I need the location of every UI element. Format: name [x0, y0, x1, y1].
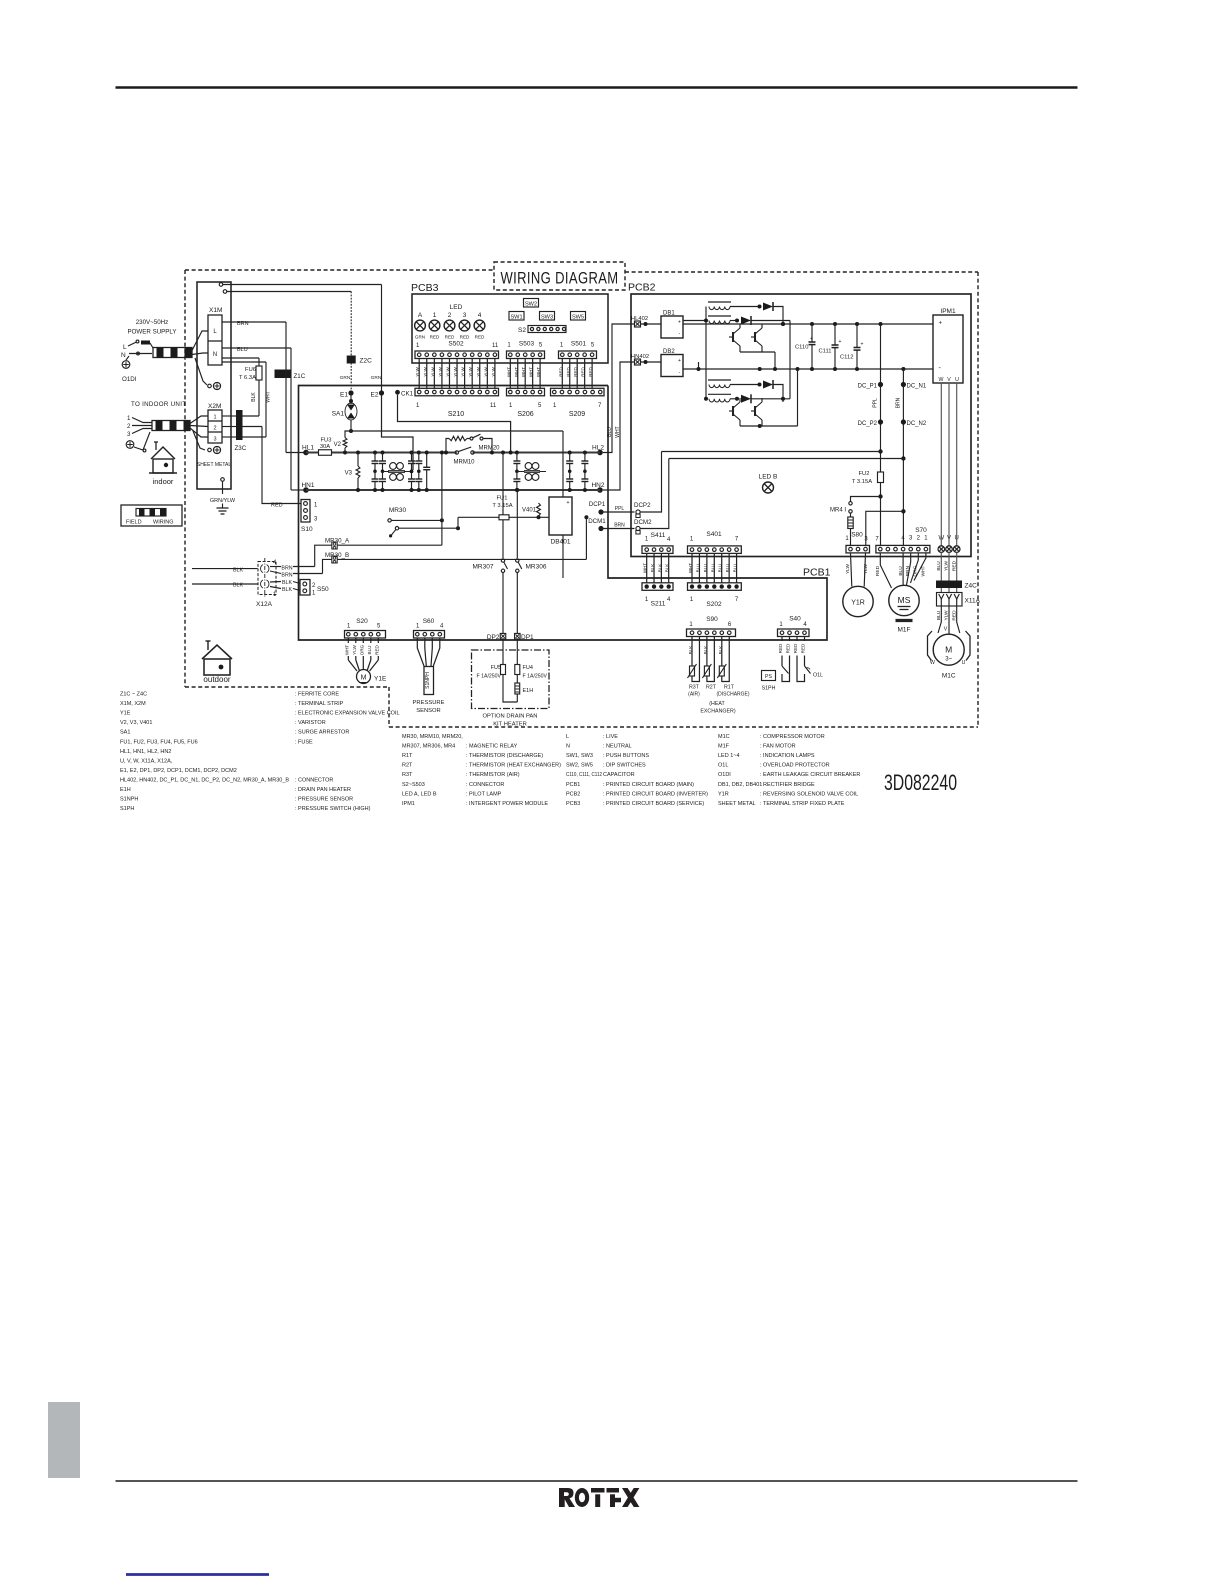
- svg-text:FU6: FU6: [245, 367, 256, 373]
- svg-text:R3T: R3T: [689, 685, 700, 691]
- svg-text:SHEET METAL: SHEET METAL: [197, 462, 231, 468]
- svg-text:PCB2: PCB2: [566, 791, 580, 797]
- svg-text:M1C: M1C: [942, 673, 956, 680]
- svg-text:: EARTH LEAKAGE CIRCUIT BREAKE: : EARTH LEAKAGE CIRCUIT BREAKER: [760, 772, 860, 778]
- svg-text:Y1E: Y1E: [120, 711, 131, 717]
- svg-text:PCB3: PCB3: [411, 282, 439, 294]
- svg-text:MR30, MRM10, MRM20,: MR30, MRM10, MRM20,: [402, 734, 463, 740]
- svg-text:SW2, SW5: SW2, SW5: [566, 763, 593, 769]
- svg-text:YLW: YLW: [845, 564, 851, 575]
- svg-text:SW2: SW2: [525, 301, 537, 307]
- svg-text:C110, C111, C112: C110, C111, C112: [566, 772, 602, 778]
- svg-text:PCB1: PCB1: [566, 782, 580, 788]
- svg-text:M: M: [361, 675, 367, 682]
- svg-text:RED: RED: [793, 643, 798, 653]
- svg-text:YLW: YLW: [468, 367, 473, 377]
- svg-text:U, V, W, X11A, X12A,: U, V, W, X11A, X12A,: [120, 758, 173, 764]
- svg-text:Y1R: Y1R: [718, 791, 729, 797]
- svg-text:: FAN MOTOR: : FAN MOTOR: [760, 744, 796, 750]
- svg-text:BRN: BRN: [905, 565, 911, 576]
- svg-text:LED: LED: [450, 304, 463, 311]
- svg-text:FU3: FU3: [321, 438, 332, 444]
- svg-text:E1H: E1H: [120, 787, 131, 793]
- svg-text:Z1C: Z1C: [294, 373, 306, 380]
- svg-text:HL1: HL1: [302, 445, 314, 452]
- svg-text:FU2: FU2: [859, 471, 870, 477]
- svg-text:: CONNECTOR: : CONNECTOR: [295, 777, 333, 783]
- svg-text:SA1: SA1: [120, 730, 130, 736]
- svg-text:: PRESSURE SENSOR: : PRESSURE SENSOR: [295, 797, 353, 803]
- svg-text:YLW: YLW: [430, 367, 435, 377]
- svg-text:R1T: R1T: [724, 685, 735, 691]
- svg-text:BLU: BLU: [733, 564, 738, 573]
- svg-text:SW5: SW5: [572, 314, 584, 320]
- svg-text:3: 3: [463, 312, 467, 319]
- svg-text:RED: RED: [573, 367, 578, 377]
- svg-text:BLU: BLU: [710, 564, 715, 573]
- svg-text:: VARISTOR: : VARISTOR: [295, 720, 326, 726]
- svg-text:CK1: CK1: [401, 390, 414, 397]
- svg-text:4: 4: [478, 312, 482, 319]
- svg-text:3: 3: [127, 431, 131, 438]
- svg-text:DB2: DB2: [663, 349, 675, 355]
- svg-text:IPM1: IPM1: [940, 308, 956, 315]
- svg-text:KIT HEATER: KIT HEATER: [493, 722, 527, 728]
- svg-text:MR4 I: MR4 I: [830, 508, 846, 514]
- svg-text:SW1, SW3: SW1, SW3: [566, 753, 593, 759]
- svg-text:X12A: X12A: [256, 601, 273, 608]
- svg-text:: PRINTED CIRCUIT BOARD (SERVI: : PRINTED CIRCUIT BOARD (SERVICE): [603, 801, 704, 807]
- svg-text:SENSOR: SENSOR: [416, 708, 440, 714]
- svg-text:BLK: BLK: [233, 583, 243, 589]
- svg-text:N: N: [121, 352, 126, 359]
- svg-text:MR307, MR306, MR4: MR307, MR306, MR4: [402, 744, 455, 750]
- svg-text:(HEAT: (HEAT: [709, 701, 725, 707]
- svg-text:WHT: WHT: [615, 426, 621, 437]
- svg-text:WHT: WHT: [536, 367, 541, 377]
- svg-text:L: L: [123, 344, 127, 351]
- svg-text:MR306: MR306: [526, 564, 547, 571]
- svg-text:S70: S70: [915, 527, 927, 534]
- svg-text:YLW: YLW: [453, 367, 458, 377]
- svg-text:T 3.15A: T 3.15A: [492, 503, 512, 509]
- svg-text:DCP1: DCP1: [589, 501, 606, 508]
- svg-text:X1M, X2M: X1M, X2M: [120, 701, 146, 707]
- svg-text:: REVERSING SOLENOID VALVE COI: : REVERSING SOLENOID VALVE COIL: [760, 791, 858, 797]
- svg-text:: OVERLOAD PROTECTOR: : OVERLOAD PROTECTOR: [760, 763, 830, 769]
- svg-text:V2, V3, V401: V2, V3, V401: [120, 720, 152, 726]
- svg-text:S401: S401: [706, 531, 722, 538]
- svg-text:MS: MS: [898, 595, 911, 605]
- svg-text:S80: S80: [851, 532, 863, 539]
- svg-text:(DISCHARGE): (DISCHARGE): [716, 692, 749, 698]
- svg-text:DCM2: DCM2: [634, 519, 652, 526]
- svg-text:DCM1: DCM1: [588, 518, 606, 525]
- svg-text:+: +: [678, 320, 681, 326]
- svg-text:S2~S503: S2~S503: [402, 782, 425, 788]
- svg-text:S90: S90: [706, 616, 718, 623]
- svg-text:S1PH: S1PH: [120, 806, 134, 812]
- svg-text:BLK: BLK: [282, 587, 292, 593]
- svg-text:MR307: MR307: [473, 564, 494, 571]
- svg-text:S206: S206: [517, 411, 533, 418]
- svg-text:: LIVE: : LIVE: [603, 734, 618, 740]
- svg-text:FIELD: FIELD: [126, 520, 142, 526]
- svg-text:O1L: O1L: [813, 673, 823, 679]
- svg-text:DP1: DP1: [521, 634, 534, 641]
- svg-text:X1M: X1M: [209, 307, 222, 314]
- svg-text:YLW: YLW: [415, 367, 420, 377]
- svg-text:S502: S502: [448, 341, 464, 348]
- svg-text:Z3C: Z3C: [235, 445, 247, 452]
- svg-text:: PUSH BUTTONS: : PUSH BUTTONS: [603, 753, 649, 759]
- svg-text:BLU: BLU: [718, 564, 723, 573]
- svg-text:F 1A/250V: F 1A/250V: [476, 674, 501, 680]
- svg-text:RED: RED: [951, 560, 957, 571]
- svg-text:DC_N1: DC_N1: [907, 384, 927, 390]
- svg-text:E1: E1: [340, 391, 348, 398]
- svg-text:: THERMISTOR (DISCHARGE): : THERMISTOR (DISCHARGE): [466, 753, 543, 759]
- svg-text:: INTERGENT POWER MODULE: : INTERGENT POWER MODULE: [466, 801, 548, 807]
- svg-text:DC_P2: DC_P2: [858, 421, 878, 427]
- svg-text:3: 3: [213, 437, 216, 443]
- svg-text:BRN: BRN: [281, 565, 292, 571]
- svg-text:EXCHANGER): EXCHANGER): [700, 709, 736, 715]
- svg-text:S1NPH: S1NPH: [120, 797, 138, 803]
- svg-text:PCB1: PCB1: [803, 567, 831, 579]
- svg-text:C112: C112: [840, 355, 853, 361]
- svg-text:BRN: BRN: [896, 397, 902, 408]
- svg-text:BRN: BRN: [281, 572, 292, 578]
- svg-text:DCP2: DCP2: [634, 502, 651, 509]
- svg-text:WHT: WHT: [344, 645, 349, 656]
- svg-text:YLW: YLW: [352, 645, 357, 655]
- svg-text:DP2: DP2: [487, 634, 500, 641]
- svg-text:V: V: [947, 377, 951, 383]
- svg-text:WIRING DIAGRAM: WIRING DIAGRAM: [501, 269, 619, 288]
- svg-text:DB1, DB2, DB401: DB1, DB2, DB401: [718, 782, 762, 788]
- svg-text:WHT: WHT: [529, 367, 534, 377]
- svg-text:M1C: M1C: [718, 734, 730, 740]
- svg-text:: FUSE: : FUSE: [295, 739, 313, 745]
- svg-text:: DRAIN PAN HEATER: : DRAIN PAN HEATER: [295, 787, 351, 793]
- svg-text:X2M: X2M: [208, 403, 221, 410]
- svg-text:FU5: FU5: [491, 665, 501, 671]
- svg-text:3D082240: 3D082240: [884, 770, 957, 795]
- svg-text:RED: RED: [271, 503, 283, 509]
- svg-text:U: U: [962, 660, 966, 666]
- svg-text:YLW: YLW: [461, 367, 466, 377]
- svg-text:R2T: R2T: [402, 763, 413, 769]
- svg-text:HL1, HN1, HL2, HN2: HL1, HN1, HL2, HN2: [120, 749, 171, 755]
- svg-text:: PRINTED CIRCUIT BOARD (MAIN): : PRINTED CIRCUIT BOARD (MAIN): [603, 782, 694, 788]
- svg-text:R1T: R1T: [402, 753, 413, 759]
- svg-text:BLU: BLU: [607, 427, 613, 437]
- svg-text:O1L: O1L: [718, 763, 728, 769]
- svg-text:RED: RED: [875, 565, 881, 576]
- svg-text:L: L: [566, 734, 569, 740]
- svg-text:: MAGNETIC RELAY: : MAGNETIC RELAY: [466, 744, 518, 750]
- svg-text:FU1: FU1: [497, 496, 508, 502]
- svg-text:V3: V3: [345, 471, 353, 477]
- svg-text:W: W: [939, 377, 944, 383]
- svg-text:S211: S211: [651, 601, 666, 608]
- svg-text:S1NPH: S1NPH: [425, 672, 431, 689]
- svg-text:: CONNECTOR: : CONNECTOR: [466, 782, 504, 788]
- svg-text:outdoor: outdoor: [203, 675, 230, 684]
- svg-text:V2: V2: [334, 442, 342, 448]
- svg-text:F 1A/250V: F 1A/250V: [523, 674, 548, 680]
- svg-text:POWER SUPPLY: POWER SUPPLY: [127, 329, 176, 336]
- svg-text:BLU: BLU: [898, 566, 904, 576]
- svg-text:+: +: [861, 342, 864, 348]
- svg-text:GRN: GRN: [415, 335, 425, 340]
- svg-text:Z4C: Z4C: [965, 583, 978, 590]
- svg-text:BLU: BLU: [367, 646, 372, 655]
- svg-text:V401: V401: [522, 508, 537, 514]
- svg-text:RED: RED: [445, 335, 455, 340]
- svg-text:W: W: [930, 660, 935, 666]
- svg-text:30A: 30A: [320, 444, 330, 450]
- svg-text:RED: RED: [374, 644, 379, 654]
- svg-text:WHT: WHT: [643, 563, 648, 573]
- svg-text:V: V: [944, 627, 948, 633]
- svg-text:BRN: BRN: [614, 522, 625, 528]
- svg-text:+: +: [810, 336, 813, 342]
- svg-text:ORG: ORG: [913, 565, 919, 576]
- svg-text:M1F: M1F: [718, 744, 730, 750]
- svg-text:SW3: SW3: [541, 314, 553, 320]
- svg-text:Y1R: Y1R: [851, 600, 865, 607]
- svg-text:DB1: DB1: [663, 311, 675, 317]
- svg-text:3~: 3~: [945, 656, 952, 662]
- svg-text:E1H: E1H: [523, 688, 534, 694]
- svg-text:: THERMISTOR (HEAT EXCHANGER): : THERMISTOR (HEAT EXCHANGER): [466, 763, 561, 769]
- svg-text:PCB2: PCB2: [628, 282, 656, 294]
- svg-text:: TERMINAL STRIP: : TERMINAL STRIP: [295, 701, 344, 707]
- svg-text:DC_N2: DC_N2: [907, 421, 927, 427]
- svg-text:GRN: GRN: [340, 375, 351, 381]
- svg-text:RED: RED: [778, 643, 783, 653]
- svg-text:O1DI: O1DI: [122, 376, 137, 383]
- svg-text:GRN/YLW: GRN/YLW: [210, 498, 236, 504]
- svg-text:M1F: M1F: [898, 627, 911, 634]
- svg-text:SW1: SW1: [510, 314, 522, 320]
- svg-text:BLK: BLK: [657, 564, 662, 573]
- svg-text:M: M: [945, 644, 952, 654]
- svg-text:SHEET METAL: SHEET METAL: [718, 801, 756, 807]
- svg-text:: PRINTED CIRCUIT BOARD (INVER: : PRINTED CIRCUIT BOARD (INVERTER): [603, 791, 708, 797]
- svg-text:S10: S10: [301, 526, 313, 533]
- svg-text:HL402, HN402, DC_P1, DC_N1, DC: HL402, HN402, DC_P1, DC_N1, DC_P2, DC_N2…: [120, 777, 289, 783]
- svg-text:A: A: [418, 312, 423, 319]
- svg-text:MRM20: MRM20: [478, 446, 500, 452]
- svg-text:: ELECTRONIC EXPANSION VALVE C: : ELECTRONIC EXPANSION VALVE COIL: [295, 711, 400, 717]
- svg-text:: THERMISTOR (AIR): : THERMISTOR (AIR): [466, 772, 520, 778]
- svg-text:S1PH: S1PH: [762, 686, 776, 692]
- svg-text:BLU: BLU: [936, 561, 942, 571]
- svg-text:E1, E2, DP1, DP2, DCP1, DCM1,: E1, E2, DP1, DP2, DCP1, DCM1, DCP2, DCM2: [120, 768, 237, 774]
- svg-text:YLW: YLW: [445, 367, 450, 377]
- svg-text:+: +: [678, 358, 681, 364]
- svg-text:RED: RED: [475, 335, 485, 340]
- svg-text:E2: E2: [371, 391, 379, 398]
- svg-text:LED 1~4: LED 1~4: [718, 753, 740, 759]
- svg-text:BLU: BLU: [703, 564, 708, 573]
- svg-text:RED: RED: [786, 643, 791, 653]
- svg-text:BLK: BLK: [282, 580, 292, 586]
- svg-text:S50: S50: [317, 586, 329, 593]
- svg-text:R2T: R2T: [706, 685, 717, 691]
- svg-text:WHT: WHT: [514, 367, 519, 377]
- svg-text:S20: S20: [356, 618, 368, 625]
- svg-text:FU1, FU2, FU3, FU4, FU5, FU6: FU1, FU2, FU3, FU4, FU5, FU6: [120, 739, 198, 745]
- svg-text:S209: S209: [569, 411, 585, 418]
- svg-text:T 3.15A: T 3.15A: [852, 479, 872, 485]
- svg-text:O1DI: O1DI: [718, 772, 731, 778]
- svg-text:1: 1: [433, 312, 437, 319]
- svg-text:: SURGE ARRESTOR: : SURGE ARRESTOR: [295, 730, 349, 736]
- svg-text:: TERMINAL STRIP FIXED PLATE: : TERMINAL STRIP FIXED PLATE: [760, 801, 845, 807]
- svg-text:C110: C110: [795, 345, 808, 351]
- svg-text:: NEUTRAL: : NEUTRAL: [603, 744, 632, 750]
- svg-text:RED: RED: [581, 367, 586, 377]
- svg-text:RED: RED: [588, 367, 593, 377]
- svg-text:YLW: YLW: [944, 561, 950, 572]
- svg-text:: PRESSURE SWITCH (HIGH): : PRESSURE SWITCH (HIGH): [295, 806, 371, 812]
- svg-text:: RECTIFIER BRIDGE: : RECTIFIER BRIDGE: [760, 782, 815, 788]
- svg-text:OPTION DRAIN PAN: OPTION DRAIN PAN: [483, 714, 538, 720]
- svg-text:WHT: WHT: [688, 563, 693, 573]
- svg-text:C111: C111: [819, 349, 832, 355]
- svg-text:IPM1: IPM1: [402, 801, 415, 807]
- svg-text:RED: RED: [566, 367, 571, 377]
- svg-text:YLW: YLW: [863, 564, 869, 575]
- svg-text:BLU: BLU: [695, 564, 700, 573]
- svg-text:indoor: indoor: [153, 477, 174, 486]
- svg-text:: DIP SWITCHES: : DIP SWITCHES: [603, 763, 646, 769]
- svg-text:: FERRITE CORE: : FERRITE CORE: [295, 692, 339, 698]
- svg-text:PPL: PPL: [873, 398, 879, 408]
- svg-text:YLW: YLW: [483, 367, 488, 377]
- svg-text:N: N: [213, 352, 217, 358]
- svg-text:RED: RED: [430, 335, 440, 340]
- svg-text:PRESSURE: PRESSURE: [413, 700, 445, 706]
- svg-text:11: 11: [490, 403, 497, 409]
- svg-text:BRN: BRN: [237, 321, 249, 327]
- svg-text:WHT: WHT: [921, 565, 927, 576]
- svg-text:11: 11: [492, 343, 499, 349]
- svg-text:LED A, LED B: LED A, LED B: [402, 791, 437, 797]
- svg-text:S411: S411: [651, 532, 666, 539]
- svg-text:N: N: [566, 744, 570, 750]
- svg-text:HN1: HN1: [301, 482, 314, 489]
- svg-text:GRN: GRN: [371, 375, 382, 381]
- svg-text:BLK: BLK: [650, 564, 655, 573]
- svg-text:Z2C: Z2C: [360, 358, 373, 365]
- svg-text:LED B: LED B: [759, 474, 778, 481]
- svg-text:BLK: BLK: [251, 392, 257, 402]
- svg-text:BLK: BLK: [665, 564, 670, 573]
- svg-text:S60: S60: [423, 618, 435, 625]
- svg-text:X11A: X11A: [965, 598, 981, 605]
- svg-text:: COMPRESSOR MOTOR: : COMPRESSOR MOTOR: [760, 734, 825, 740]
- svg-text:BLU: BLU: [237, 347, 248, 353]
- svg-text:2: 2: [213, 426, 216, 432]
- svg-text:Y1E: Y1E: [374, 676, 387, 683]
- svg-text:S503: S503: [519, 341, 535, 348]
- svg-text:YLW: YLW: [423, 367, 428, 377]
- svg-text:: PILOT LAMP: : PILOT LAMP: [466, 791, 502, 797]
- svg-text:WHT: WHT: [266, 391, 272, 402]
- svg-text:CAPACITOR: CAPACITOR: [603, 772, 635, 778]
- svg-text:S2: S2: [518, 327, 526, 334]
- svg-text:+: +: [939, 321, 943, 327]
- svg-text:+: +: [839, 339, 842, 345]
- svg-text:SA1: SA1: [332, 411, 345, 418]
- svg-text:BLK: BLK: [233, 567, 243, 573]
- svg-text:TO INDOOR UNIT: TO INDOOR UNIT: [131, 401, 186, 408]
- svg-text:230V~50Hz: 230V~50Hz: [136, 319, 169, 326]
- svg-text:DC_P1: DC_P1: [858, 384, 878, 390]
- svg-text:WIRING: WIRING: [153, 520, 173, 526]
- svg-text:: INDICATION LAMPS: : INDICATION LAMPS: [760, 753, 815, 759]
- svg-text:1: 1: [127, 415, 131, 422]
- svg-text:MR30: MR30: [389, 507, 407, 514]
- svg-text:RED: RED: [460, 335, 470, 340]
- svg-text:FU4: FU4: [523, 665, 533, 671]
- svg-text:2: 2: [448, 312, 452, 319]
- svg-text:T 6.3A: T 6.3A: [239, 375, 256, 381]
- svg-text:DB401: DB401: [551, 539, 571, 546]
- svg-text:R3T: R3T: [402, 772, 413, 778]
- svg-text:WHT: WHT: [506, 367, 511, 377]
- svg-text:BLU: BLU: [725, 564, 730, 573]
- svg-text:PS: PS: [765, 674, 772, 680]
- svg-text:PPL: PPL: [615, 506, 625, 512]
- svg-text:1: 1: [213, 415, 216, 421]
- svg-text:+: +: [566, 500, 569, 506]
- svg-text:YLW: YLW: [476, 367, 481, 377]
- svg-text:MRM10: MRM10: [453, 460, 475, 466]
- svg-text:PCB3: PCB3: [566, 801, 580, 807]
- svg-text:RED: RED: [801, 643, 806, 653]
- svg-text:WHT: WHT: [521, 367, 526, 377]
- svg-text:ORG: ORG: [359, 644, 364, 655]
- svg-text:S501: S501: [571, 341, 587, 348]
- svg-text:YLW: YLW: [438, 367, 443, 377]
- svg-text:(AIR): (AIR): [688, 692, 700, 698]
- svg-text:YLW: YLW: [491, 367, 496, 377]
- svg-text:Z1C ~ Z4C: Z1C ~ Z4C: [120, 692, 147, 698]
- svg-text:U: U: [955, 377, 959, 383]
- svg-text:S40: S40: [789, 616, 801, 623]
- svg-text:S210: S210: [448, 411, 464, 418]
- svg-text:2: 2: [127, 423, 131, 430]
- svg-text:RED: RED: [558, 367, 563, 377]
- svg-text:S202: S202: [706, 601, 722, 608]
